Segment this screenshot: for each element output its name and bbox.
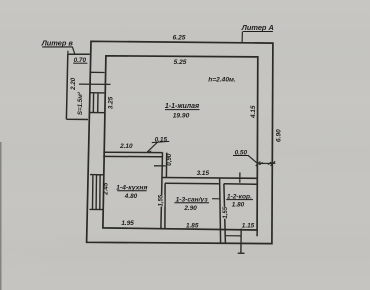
left edge scan shadow [0, 142, 2, 290]
window W2 kitchen left wall [90, 175, 105, 210]
bathroom corridor partition [220, 178, 226, 243]
annex liter v outline [66, 54, 89, 119]
0.15 leader [147, 142, 157, 152]
svg-text:2.45: 2.45 [103, 182, 110, 196]
step wall and kitchen-bath partition left face [161, 152, 163, 228]
svg-text:1,55: 1,55 [223, 206, 229, 218]
dim tick on band [239, 172, 241, 182]
svg-text:2.20: 2.20 [70, 77, 77, 91]
svg-text:1.95: 1.95 [121, 220, 134, 227]
inner wall rectangle [103, 56, 258, 230]
left wall section line [90, 71, 105, 73]
svg-text:2.90: 2.90 [183, 205, 197, 212]
svg-text:3.25: 3.25 [108, 96, 115, 109]
dim 1.55 right rotated [222, 207, 229, 219]
svg-text:1.80: 1.80 [232, 202, 245, 209]
svg-text:h=2.40м.: h=2.40м. [208, 77, 236, 84]
svg-text:5.25: 5.25 [174, 59, 187, 66]
svg-text:6.25: 6.25 [173, 35, 186, 42]
dim tick 0.90 [154, 165, 166, 167]
svg-text:0,90: 0,90 [166, 153, 173, 166]
liter A leader [241, 32, 243, 43]
svg-text:Литер в: Литер в [41, 39, 74, 48]
svg-text:4.80: 4.80 [124, 193, 138, 200]
entrance door mid line [225, 235, 241, 237]
corridor right wall stub [256, 230, 258, 236]
dim line 2.20 [79, 83, 111, 85]
svg-text:1,55: 1,55 [158, 194, 164, 206]
svg-text:S=1.5м²: S=1.5м² [77, 91, 84, 115]
svg-text:2.10: 2.10 [119, 143, 133, 150]
extension line below building [238, 229, 245, 254]
step wall right face [165, 153, 167, 178]
dim tick bathroom wall [212, 198, 219, 200]
svg-text:1.85: 1.85 [186, 223, 199, 230]
kitchen top partition wall [103, 152, 162, 157]
liter v leader [72, 47, 75, 54]
svg-text:1.15: 1.15 [242, 223, 255, 230]
svg-text:19.90: 19.90 [173, 112, 190, 119]
svg-text:Литер А: Литер А [241, 23, 274, 32]
0.50 leader [248, 156, 257, 164]
annex dim tick [67, 51, 69, 55]
wall band above bathroom and corridor [163, 177, 258, 180]
kitchen-bath partition right face [164, 183, 166, 228]
0.50 wall thickness dimension [258, 162, 276, 164]
svg-text:6.90: 6.90 [275, 129, 282, 142]
svg-text:4.15: 4.15 [250, 105, 257, 119]
dim 1.55 left rotated [157, 195, 164, 206]
window W1 left wall [89, 93, 104, 113]
outer wall building liter A [87, 41, 273, 243]
svg-text:3.15: 3.15 [197, 170, 210, 177]
